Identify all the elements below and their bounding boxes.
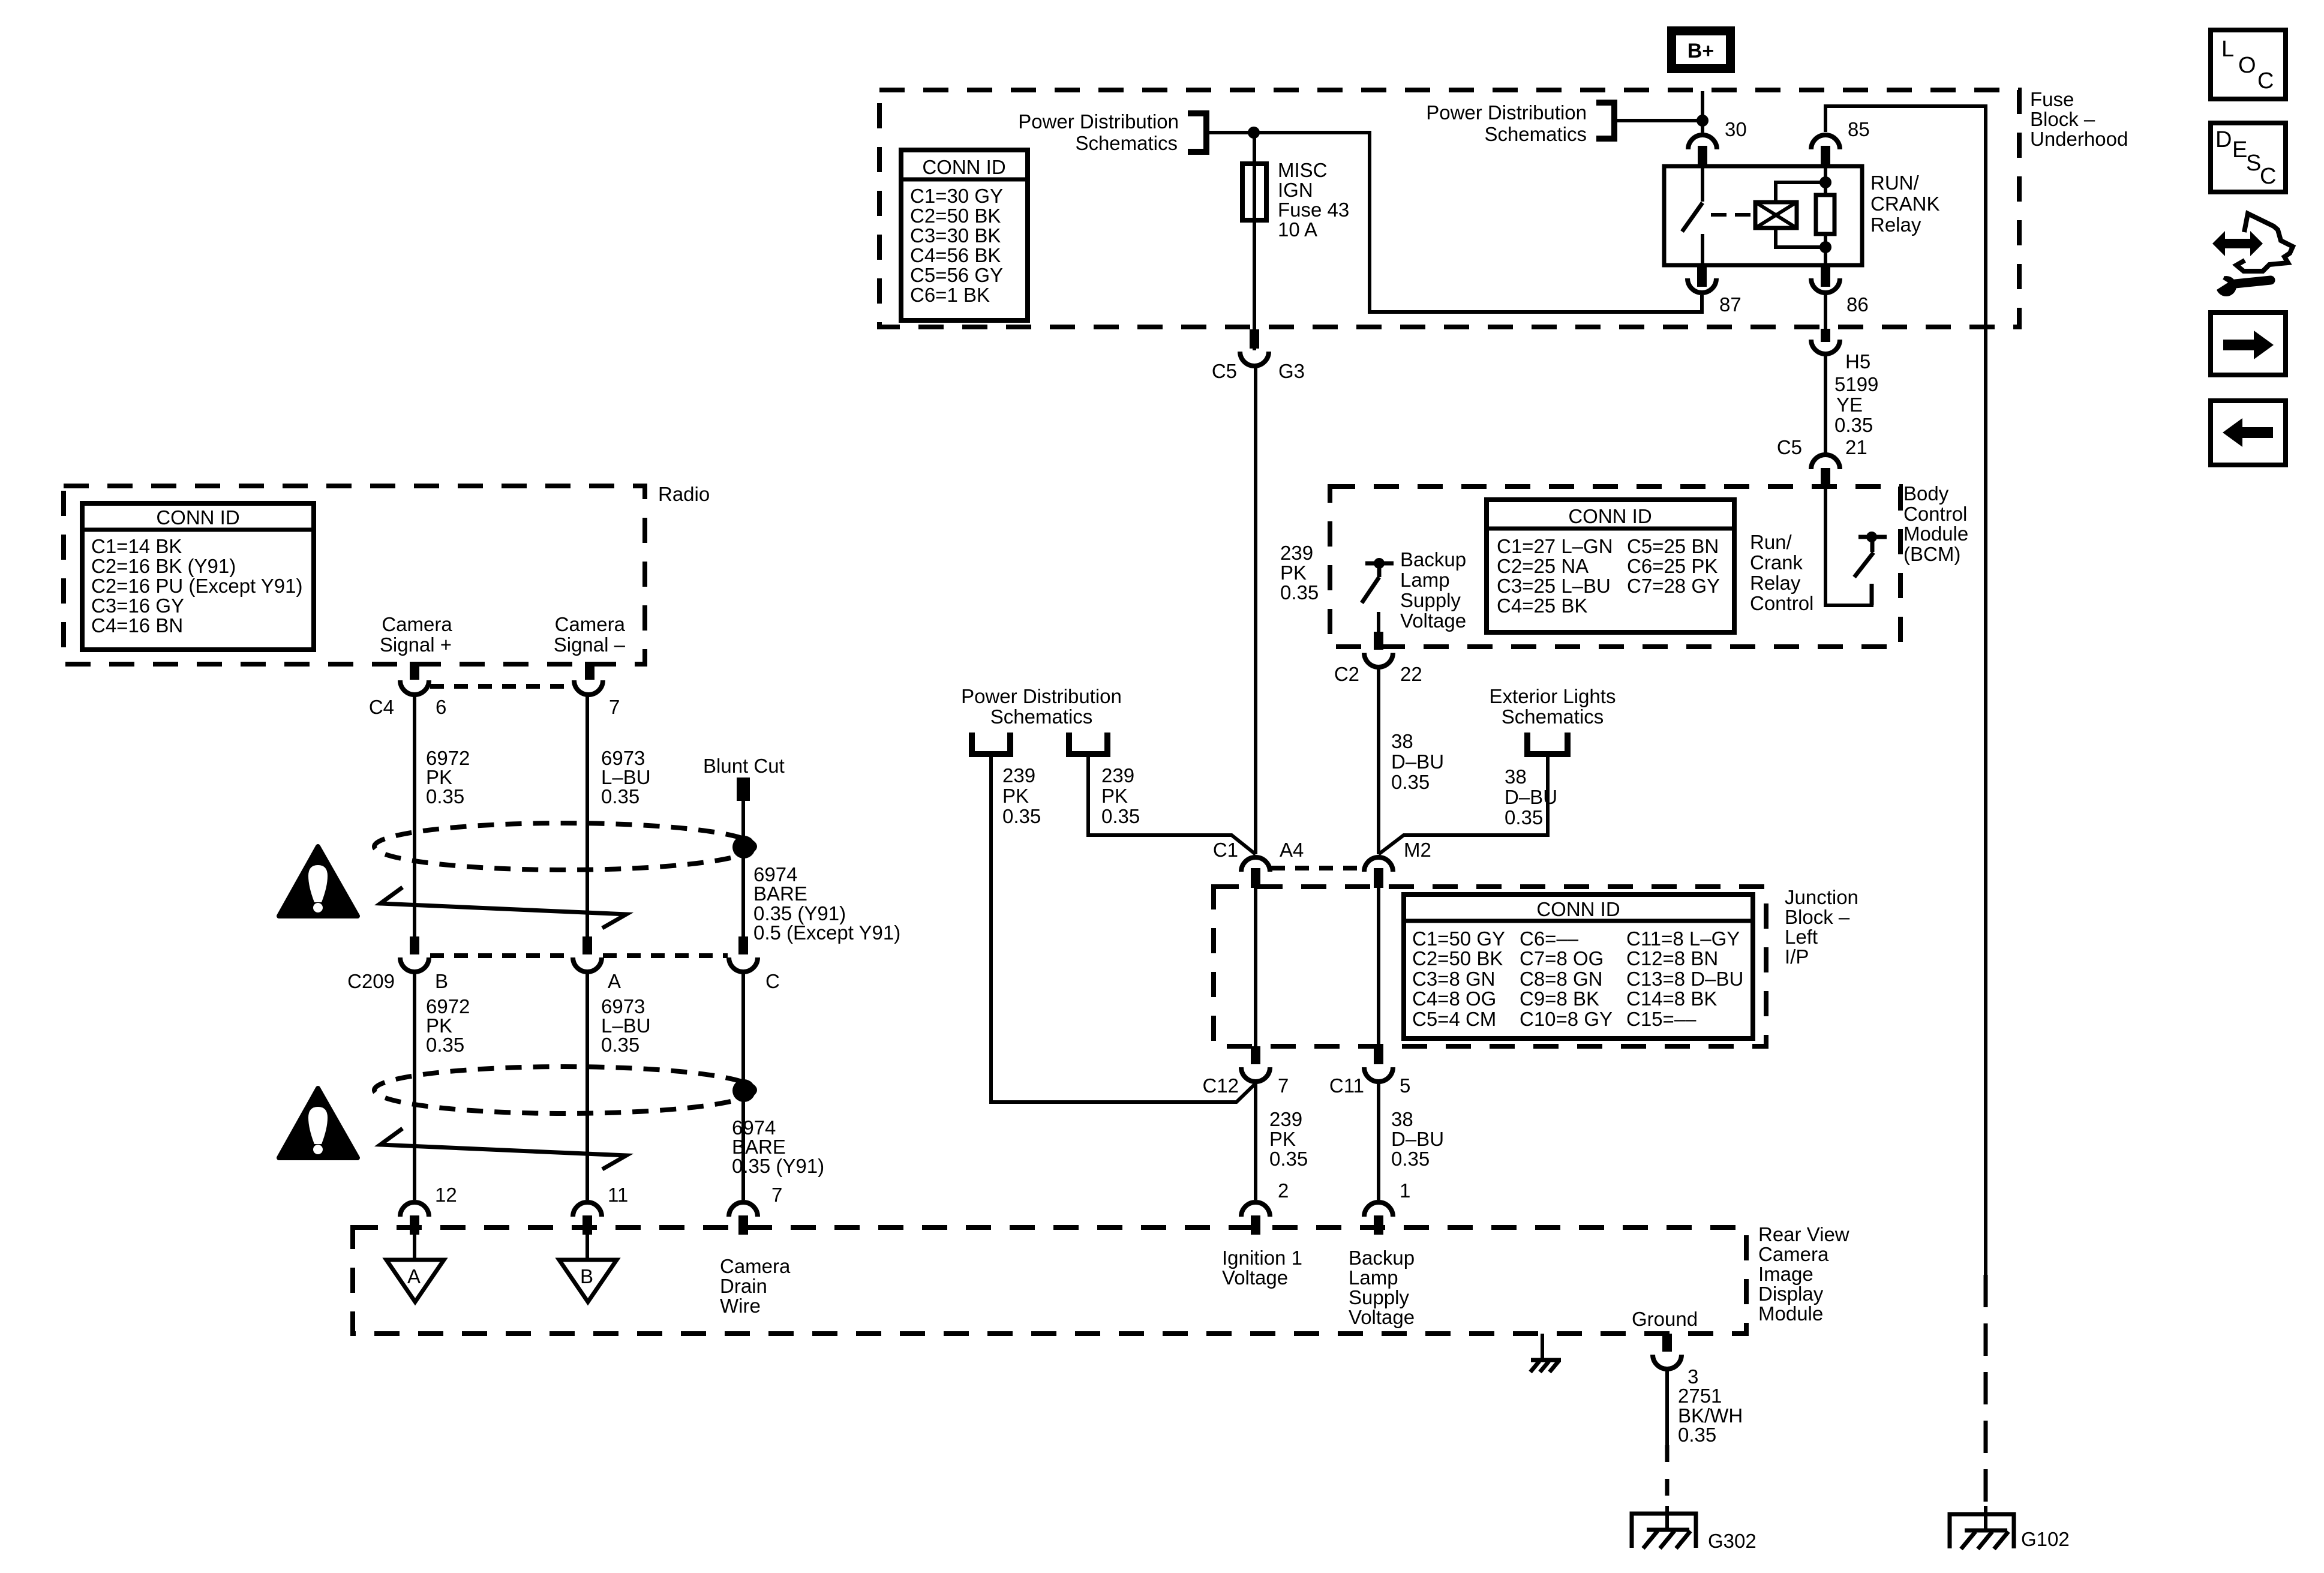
svg-text:Fuse 43: Fuse 43 [1278,199,1349,221]
svg-text:YE: YE [1836,394,1863,416]
connector module pin 11 [573,1184,628,1235]
wire label 38 D-BU 0.35 (to module) [1391,1108,1444,1170]
rear view camera image display module dashed box [353,1227,1746,1334]
twisted pair ellipse (lower) [374,1067,755,1113]
fuse block label [2030,88,2128,150]
svg-text:C15=––: C15=–– [1626,1008,1697,1030]
BCM backup lamp driver symbol [1362,558,1394,603]
connector module pin 7 [729,1184,782,1235]
svg-text:C2: C2 [1334,663,1359,685]
svg-text:C4: C4 [369,696,394,718]
off-page ref: Exterior Lights Schematics [1490,685,1616,754]
wire C12 to module pin 2 [1254,1083,1257,1200]
svg-text:C2=16 BK (Y91): C2=16 BK (Y91) [91,555,236,577]
svg-text:C5: C5 [1777,436,1802,458]
svg-text:CONN ID: CONN ID [156,506,239,529]
wire label 239 PK 0.35 (first) [1002,764,1041,827]
svg-text:0.35: 0.35 [1391,1148,1430,1170]
svg-text:C3=16 GY: C3=16 GY [91,595,184,617]
display module label [1758,1223,1849,1325]
wire label 239 PK 0.35 (second) [1101,764,1140,827]
wire bracket to pin30 node [1614,119,1703,122]
node: fuse top junction [1248,127,1260,139]
connector C209 pin B [347,936,448,992]
dashed connector row C4 [430,684,573,689]
svg-text:2751: 2751 [1678,1385,1722,1407]
warning triangle (upper) [279,846,358,916]
twisted-pair callout zigzag (upper) [380,887,626,928]
svg-text:C2=50 BK: C2=50 BK [1412,947,1503,969]
svg-text:C13=8 D–BU: C13=8 D–BU [1626,968,1743,990]
wire camera signal - (6973 L-BU) upper [585,696,589,936]
svg-text:CONN ID: CONN ID [1536,898,1620,920]
BCM CONN ID table [1487,500,1734,632]
svg-text:A: A [608,970,621,992]
svg-text:Relay: Relay [1870,214,1921,236]
svg-text:0.35: 0.35 [1834,414,1873,436]
connector module pin 2 [1241,1179,1289,1235]
svg-text:Power Distribution: Power Distribution [961,685,1122,707]
svg-text:30: 30 [1725,118,1747,140]
svg-text:Camera: Camera [720,1255,791,1277]
svg-text:Schematics: Schematics [1502,706,1604,728]
wire through junction block (left) [1254,887,1257,1046]
svg-text:MISC: MISC [1278,159,1328,181]
svg-text:Schematics: Schematics [990,706,1093,728]
BCM label [1903,482,1968,565]
svg-text:11: 11 [608,1184,628,1206]
svg-text:Junction: Junction [1785,886,1858,908]
svg-text:BARE: BARE [753,882,807,905]
svg-text:CRANK: CRANK [1870,193,1940,215]
svg-text:0.5 (Except Y91): 0.5 (Except Y91) [753,921,900,944]
svg-text:1: 1 [1400,1179,1410,1202]
off-page ref: Power Distribution Schematics (bottom left) [961,685,1122,754]
svg-text:Fuse: Fuse [2030,88,2074,110]
wire fuse node to relay pin 87 [1254,133,1702,312]
BCM backup lamp supply voltage label [1400,548,1466,632]
svg-text:7: 7 [1278,1074,1289,1097]
svg-text:0.35: 0.35 [1678,1424,1716,1446]
svg-text:C12: C12 [1202,1074,1239,1097]
relay RUN/CRANK box [1664,166,1862,265]
relay actuating dashed link [1711,213,1755,217]
svg-text:Supply: Supply [1349,1286,1409,1308]
ground G102 [1950,1506,2070,1550]
svg-text:C1: C1 [1213,839,1238,861]
radio camera signal - label [554,613,626,656]
svg-text:Run/: Run/ [1750,531,1792,553]
svg-text:Crank: Crank [1750,551,1803,574]
svg-text:PK: PK [1269,1128,1296,1150]
svg-text:239: 239 [1101,764,1134,786]
svg-text:C9=8 BK: C9=8 BK [1520,987,1599,1010]
wire label 239 PK 0.35 (to module) [1269,1108,1308,1170]
relay resistor [1816,195,1834,234]
svg-text:C11=8 L–GY: C11=8 L–GY [1626,927,1740,950]
svg-text:0.35: 0.35 [601,1034,639,1056]
connector C2/22 below BCM [1334,632,1422,685]
wire label 2751 BK/WH 0.35 [1678,1385,1743,1446]
wire 6974 drain lower [741,973,745,1200]
junction block CONN ID table [1404,894,1753,1038]
relay switch blade [1682,203,1703,232]
svg-text:Underhood: Underhood [2030,128,2128,150]
svg-text:Lamp: Lamp [1349,1266,1398,1289]
triangle terminal B [559,1260,617,1302]
wire C2/22 down to M2 [1377,668,1380,854]
twisted-pair callout zigzag (lower) [380,1128,626,1169]
svg-text:Signal +: Signal + [380,634,452,656]
wire label H5 5199 YE 0.35 [1834,350,1878,436]
svg-text:C3=30 BK: C3=30 BK [910,224,1001,247]
svg-text:C2=25 NA: C2=25 NA [1497,555,1589,577]
svg-text:Backup: Backup [1349,1247,1415,1269]
svg-text:38: 38 [1505,766,1527,788]
svg-text:0.35: 0.35 [1505,806,1543,828]
svg-text:C: C [2260,164,2276,189]
svg-text:M2: M2 [1404,839,1431,861]
wire 6972 PK lower [413,973,416,1200]
svg-text:Camera: Camera [1758,1243,1829,1265]
relay coil box with X [1755,202,1797,228]
wire 6974 drain upper [741,801,745,936]
svg-text:C2=50 BK: C2=50 BK [910,205,1001,227]
svg-text:Radio: Radio [658,483,710,505]
svg-text:0.35: 0.35 [1280,581,1319,604]
wire label 38 D-BU 0.35 (BCM to M2) [1391,730,1444,793]
svg-text:CONN ID: CONN ID [922,156,1005,178]
connector C4 pin 6 [369,662,447,718]
wire backup lamp inside BCM [1377,612,1380,632]
wire pin 85 up and right bus to G102 (solid part) [1825,106,1986,1275]
svg-text:0.35 (Y91): 0.35 (Y91) [732,1155,824,1177]
connector pin 85 [1811,118,1870,167]
svg-text:B: B [580,1265,593,1287]
radio CONN ID table [82,503,314,650]
dashed connector row C1-M2 [1271,866,1363,870]
svg-text:Module: Module [1758,1302,1823,1325]
svg-text:I/P: I/P [1785,945,1809,968]
svg-text:C3=25 L–BU: C3=25 L–BU [1497,575,1611,597]
svg-text:C5: C5 [1212,360,1237,382]
svg-text:Voltage: Voltage [1349,1306,1415,1328]
svg-text:L: L [2221,37,2234,62]
svg-text:S: S [2246,151,2261,176]
svg-text:C5=56 GY: C5=56 GY [910,264,1003,286]
wire through junction block (right) [1377,887,1380,1046]
svg-text:Schematics: Schematics [1075,132,1178,154]
svg-text:Lamp: Lamp [1400,569,1450,591]
svg-text:Image: Image [1758,1263,1813,1285]
svg-text:Block –: Block – [2030,108,2095,130]
svg-text:Supply: Supply [1400,589,1461,611]
dashed connector row C209 [430,953,572,958]
svg-text:239: 239 [1002,764,1035,786]
svg-text:C209: C209 [347,970,395,992]
BCM run/crank driver circuit [1825,487,1887,605]
svg-text:7: 7 [771,1184,782,1206]
wire label 6972 PK 0.35 (lower) [426,995,470,1056]
wire label 239 PK 0.35 (upper) [1280,542,1319,604]
svg-text:G3: G3 [1278,360,1305,382]
svg-text:Power Distribution: Power Distribution [1018,110,1179,133]
module pin function: ignition 1 voltage [1222,1247,1302,1289]
svg-text:C4=25 BK: C4=25 BK [1497,595,1587,617]
svg-text:PK: PK [1101,785,1128,807]
wire dashed to G302 [1665,1445,1670,1514]
svg-text:D–BU: D–BU [1391,751,1444,773]
radio camera signal + label [380,613,452,656]
wire label 6972 PK 0.35 (upper) [426,747,470,807]
svg-text:C2=16 PU (Except Y91): C2=16 PU (Except Y91) [91,575,303,597]
connector C12/7 below junction block [1202,1046,1289,1097]
icon back arrow box [2211,401,2286,465]
svg-text:86: 86 [1846,293,1869,316]
connector C209 pin A [573,936,621,992]
icon LOC box [2211,30,2286,99]
connector M2 into junction block [1364,839,1431,888]
triangle terminal A [386,1260,444,1302]
svg-text:C10=8 GY: C10=8 GY [1520,1008,1613,1030]
svg-text:D–BU: D–BU [1505,786,1557,808]
fuse block CONN ID table [901,150,1028,320]
wire label 38 D-BU 0.35 (exterior) [1505,766,1557,828]
connector C4 pin 7 [574,662,620,718]
radio dashed box [64,486,645,664]
svg-text:(BCM): (BCM) [1903,543,1960,565]
twisted pair ellipse (upper) [374,823,755,870]
svg-text:21: 21 [1845,436,1867,458]
off-page ref: Power Distribution Schematics (right, to B+ node) [1426,101,1614,145]
connector pin 30 [1688,118,1747,167]
svg-text:6: 6 [436,696,446,718]
icon DESC box [2211,123,2286,192]
wire pin 86 down to block edge [1824,294,1827,329]
wire bracket to fuse node [1206,131,1254,134]
wire right bus dashed part [1984,1275,1988,1512]
svg-text:22: 22 [1400,663,1422,685]
svg-text:C1=30 GY: C1=30 GY [910,185,1003,207]
wire C5/G3 down to C1 pin (ignition feed) [1254,367,1257,854]
BCM dashed box [1330,487,1900,647]
svg-text:0.35: 0.35 [426,1034,464,1056]
wire second 239 PK to C1/A4 [1088,754,1256,854]
node: coil top [1819,176,1831,188]
svg-text:Block –: Block – [1785,906,1850,928]
svg-text:0.35: 0.35 [1101,805,1140,827]
relay coil top wire [1776,182,1825,202]
warning triangle (lower) [279,1088,358,1158]
svg-text:C6=25 PK: C6=25 PK [1627,555,1718,577]
wire label 6974 BARE (upper) [753,863,900,944]
svg-text:85: 85 [1848,118,1870,140]
svg-text:C4=56 BK: C4=56 BK [910,244,1001,266]
svg-text:Schematics: Schematics [1484,123,1587,145]
svg-text:7: 7 [609,696,620,718]
svg-text:C: C [765,970,780,992]
svg-text:A4: A4 [1280,839,1304,861]
junction block dashed box [1214,887,1766,1046]
svg-text:38: 38 [1391,1108,1413,1130]
wire 85 through resistor [1824,166,1827,265]
svg-text:C1=14 BK: C1=14 BK [91,535,182,557]
svg-text:239: 239 [1280,542,1313,564]
svg-text:0.35: 0.35 [1391,771,1430,793]
svg-text:Drain: Drain [720,1275,767,1297]
svg-text:O: O [2238,53,2256,78]
wire label 6974 BARE (lower) [732,1116,824,1177]
svg-text:Signal –: Signal – [554,634,626,656]
BCM run/crank relay control label [1750,531,1813,614]
svg-text:C1=27 L–GN: C1=27 L–GN [1497,535,1613,557]
svg-text:5: 5 [1400,1074,1410,1097]
svg-text:5199: 5199 [1834,373,1878,395]
wire label 6973 L-BU 0.35 (lower) [601,995,651,1056]
wire camera signal + (6972 PK) upper [413,696,416,936]
wire exterior lights to M2 [1379,754,1548,854]
svg-text:Voltage: Voltage [1222,1266,1288,1289]
svg-text:0.35: 0.35 [426,785,464,807]
fuse block underhood dashed box [879,90,2019,327]
svg-text:239: 239 [1269,1108,1302,1130]
connector H5 below pin 86 [1811,329,1840,354]
wire label 6973 L-BU 0.35 (upper) [601,747,651,807]
svg-text:C6=––: C6=–– [1520,927,1579,950]
svg-text:D–BU: D–BU [1391,1128,1444,1150]
svg-text:Control: Control [1750,592,1813,614]
blunt cut terminator [737,778,750,801]
connector module pin 12 [400,1184,457,1235]
svg-text:Display: Display [1758,1283,1824,1305]
svg-text:Control: Control [1903,503,1967,525]
connector pin 87 [1688,265,1742,316]
svg-text:C14=8 BK: C14=8 BK [1626,987,1717,1010]
svg-text:CONN ID: CONN ID [1568,505,1652,527]
svg-text:Left: Left [1785,926,1818,948]
svg-text:2: 2 [1278,1179,1289,1202]
svg-text:PK: PK [1280,562,1307,584]
svg-text:C1=50 GY: C1=50 GY [1412,927,1505,950]
module internal chassis ground [1530,1334,1561,1372]
svg-text:C5=25 BN: C5=25 BN [1627,535,1719,557]
fuse F43 value label [1278,159,1349,241]
B+ power symbol [1667,26,1735,73]
node: drain junction upper [732,836,755,858]
svg-text:0.35: 0.35 [601,785,639,807]
svg-text:D: D [2215,127,2232,152]
connector C11/5 below junction block [1329,1046,1410,1097]
svg-text:Backup: Backup [1400,548,1466,571]
relay switch contact (pin 30 side) [1701,166,1704,202]
node: B+ / pin 30 junction [1697,115,1709,127]
svg-text:C8=8 GN: C8=8 GN [1520,968,1602,990]
svg-text:C4=16 BN: C4=16 BN [91,614,183,637]
icon harness routing with wrench [2212,214,2293,296]
module pin function: backup lamp supply voltage [1349,1247,1415,1328]
svg-text:C7=28 GY: C7=28 GY [1627,575,1720,597]
svg-text:Wire: Wire [720,1295,761,1317]
svg-text:Camera: Camera [555,613,626,635]
connector module pin 1 [1364,1179,1410,1235]
node: coil bottom [1819,241,1831,253]
svg-text:38: 38 [1391,730,1413,752]
svg-text:Rear View: Rear View [1758,1223,1849,1245]
fuse F43 MISC IGN [1242,164,1266,220]
svg-text:RUN/: RUN/ [1870,172,1919,194]
svg-text:A: A [407,1265,421,1287]
svg-text:C6=1 BK: C6=1 BK [910,284,990,306]
connector C5/G3 at fuse block bottom [1212,329,1305,382]
svg-text:G102: G102 [2021,1528,2070,1550]
wire into triangle A [413,1229,416,1259]
svg-text:C4=8 OG: C4=8 OG [1412,987,1496,1010]
svg-text:Voltage: Voltage [1400,610,1466,632]
svg-text:Camera: Camera [382,613,452,635]
connector module pin 3 (ground) [1653,1334,1698,1388]
svg-text:Body: Body [1903,482,1949,505]
svg-text:87: 87 [1719,293,1742,316]
camera drain wire label [720,1255,791,1317]
svg-text:Blunt Cut: Blunt Cut [703,755,785,777]
icon forward arrow box [2211,313,2286,375]
svg-text:C7=8 OG: C7=8 OG [1520,947,1604,969]
wire C11 to module pin 1 [1377,1083,1380,1200]
svg-text:Ignition 1: Ignition 1 [1222,1247,1302,1269]
wire ground 2751 BK/WH [1665,1370,1669,1445]
svg-text:Power Distribution: Power Distribution [1426,101,1587,124]
connector C5/21 into BCM [1777,436,1867,487]
junction block label [1785,886,1858,968]
svg-text:IGN: IGN [1278,179,1313,201]
svg-text:10 A: 10 A [1278,218,1317,241]
svg-text:Module: Module [1903,523,1968,545]
svg-text:G302: G302 [1708,1530,1756,1552]
svg-text:C11: C11 [1329,1074,1364,1097]
wire H5 to C5/21 [1824,354,1827,456]
wire left 239 PK to C12 [991,754,1256,1102]
node: drain junction lower [732,1079,755,1102]
svg-text:C5=4 CM: C5=4 CM [1412,1008,1496,1030]
relay switch lower contact to pin 87 [1701,234,1704,265]
wire B+ down to pin 30 [1701,91,1704,133]
svg-text:C: C [2257,68,2274,94]
off-page ref: Power Distribution Schematics (left, to fuse) [1018,110,1206,154]
wire fuse vertical [1253,133,1256,350]
svg-text:B+: B+ [1688,40,1714,62]
ground G302 [1632,1506,1756,1552]
svg-text:E: E [2232,137,2247,163]
connector pin 86 [1811,265,1869,316]
connector C1/A4 into junction block [1213,839,1304,888]
svg-text:Relay: Relay [1750,572,1801,594]
svg-text:C3=8 GN: C3=8 GN [1412,968,1495,990]
svg-text:C12=8 BN: C12=8 BN [1626,947,1718,969]
svg-text:B: B [435,970,448,992]
svg-text:12: 12 [435,1184,457,1206]
connector C209 pin C [729,936,780,992]
svg-text:Exterior Lights: Exterior Lights [1490,685,1616,707]
relay label [1870,172,1940,236]
relay coil bottom wire [1776,228,1825,247]
svg-text:PK: PK [1002,785,1029,807]
svg-text:0.35: 0.35 [1002,805,1041,827]
svg-text:0.35: 0.35 [1269,1148,1308,1170]
wire 6973 L-BU lower [585,973,589,1200]
svg-text:H5: H5 [1845,350,1870,373]
wire into triangle B [585,1229,589,1259]
svg-text:Ground: Ground [1632,1308,1698,1330]
